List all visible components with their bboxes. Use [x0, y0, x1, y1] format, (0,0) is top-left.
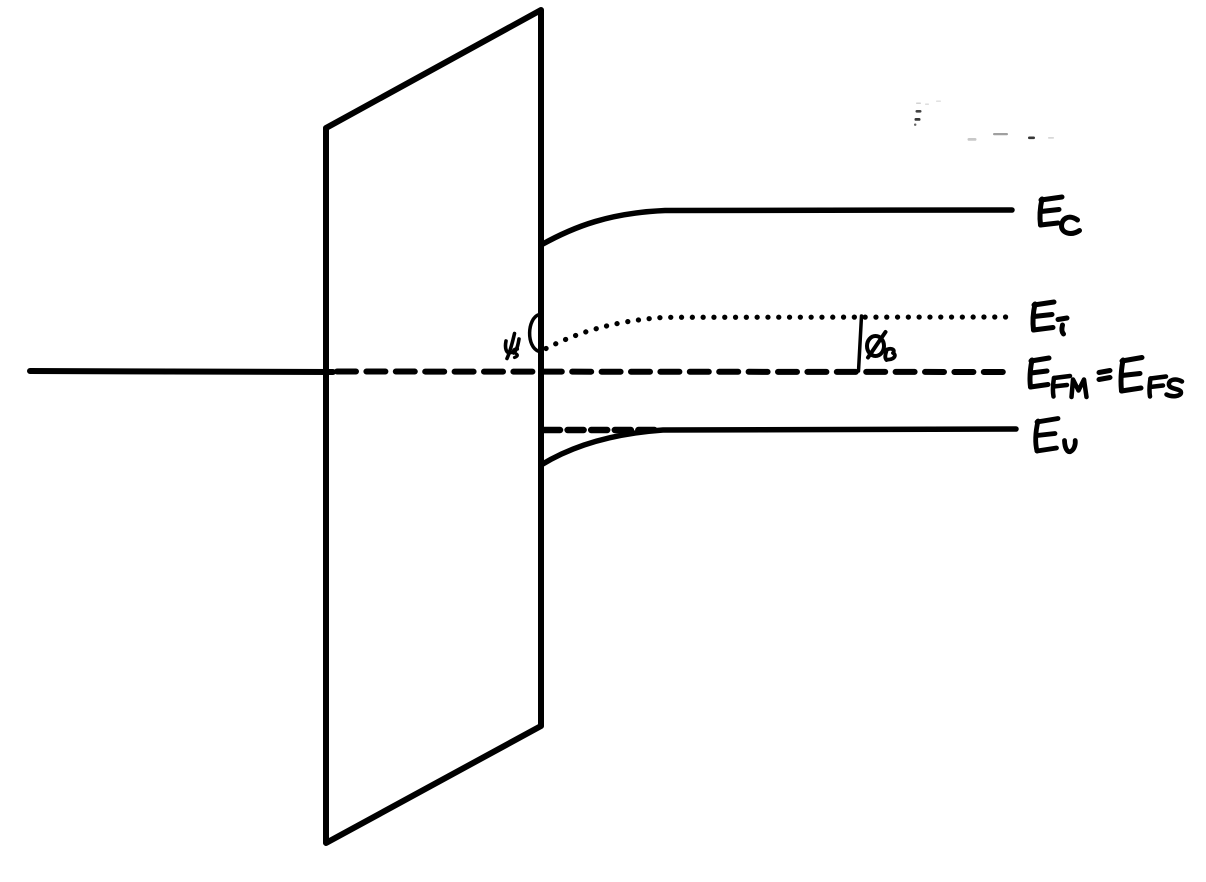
label E_FM = E_FS [1030, 358, 1182, 398]
E_v flat-band dashed segment [544, 427, 658, 434]
E_i dotted curve [546, 317, 1009, 349]
E_FM dashed line [337, 369, 1010, 376]
bottom-left corner pen blob [325, 839, 331, 845]
E_v band curve [541, 429, 1016, 465]
label E_v [1036, 419, 1076, 452]
psi_s arc [530, 315, 539, 352]
E_C band curve [541, 210, 1012, 245]
label E_i [1033, 302, 1067, 334]
metal Fermi line (left horizontal) [30, 371, 333, 372]
faint smudge marks [914, 101, 1054, 141]
phi_B tick [859, 316, 862, 371]
label E_C [1040, 197, 1080, 233]
label psi_s [506, 334, 519, 359]
oxide barrier parallelogram [326, 10, 541, 843]
label phi_B [867, 332, 895, 360]
